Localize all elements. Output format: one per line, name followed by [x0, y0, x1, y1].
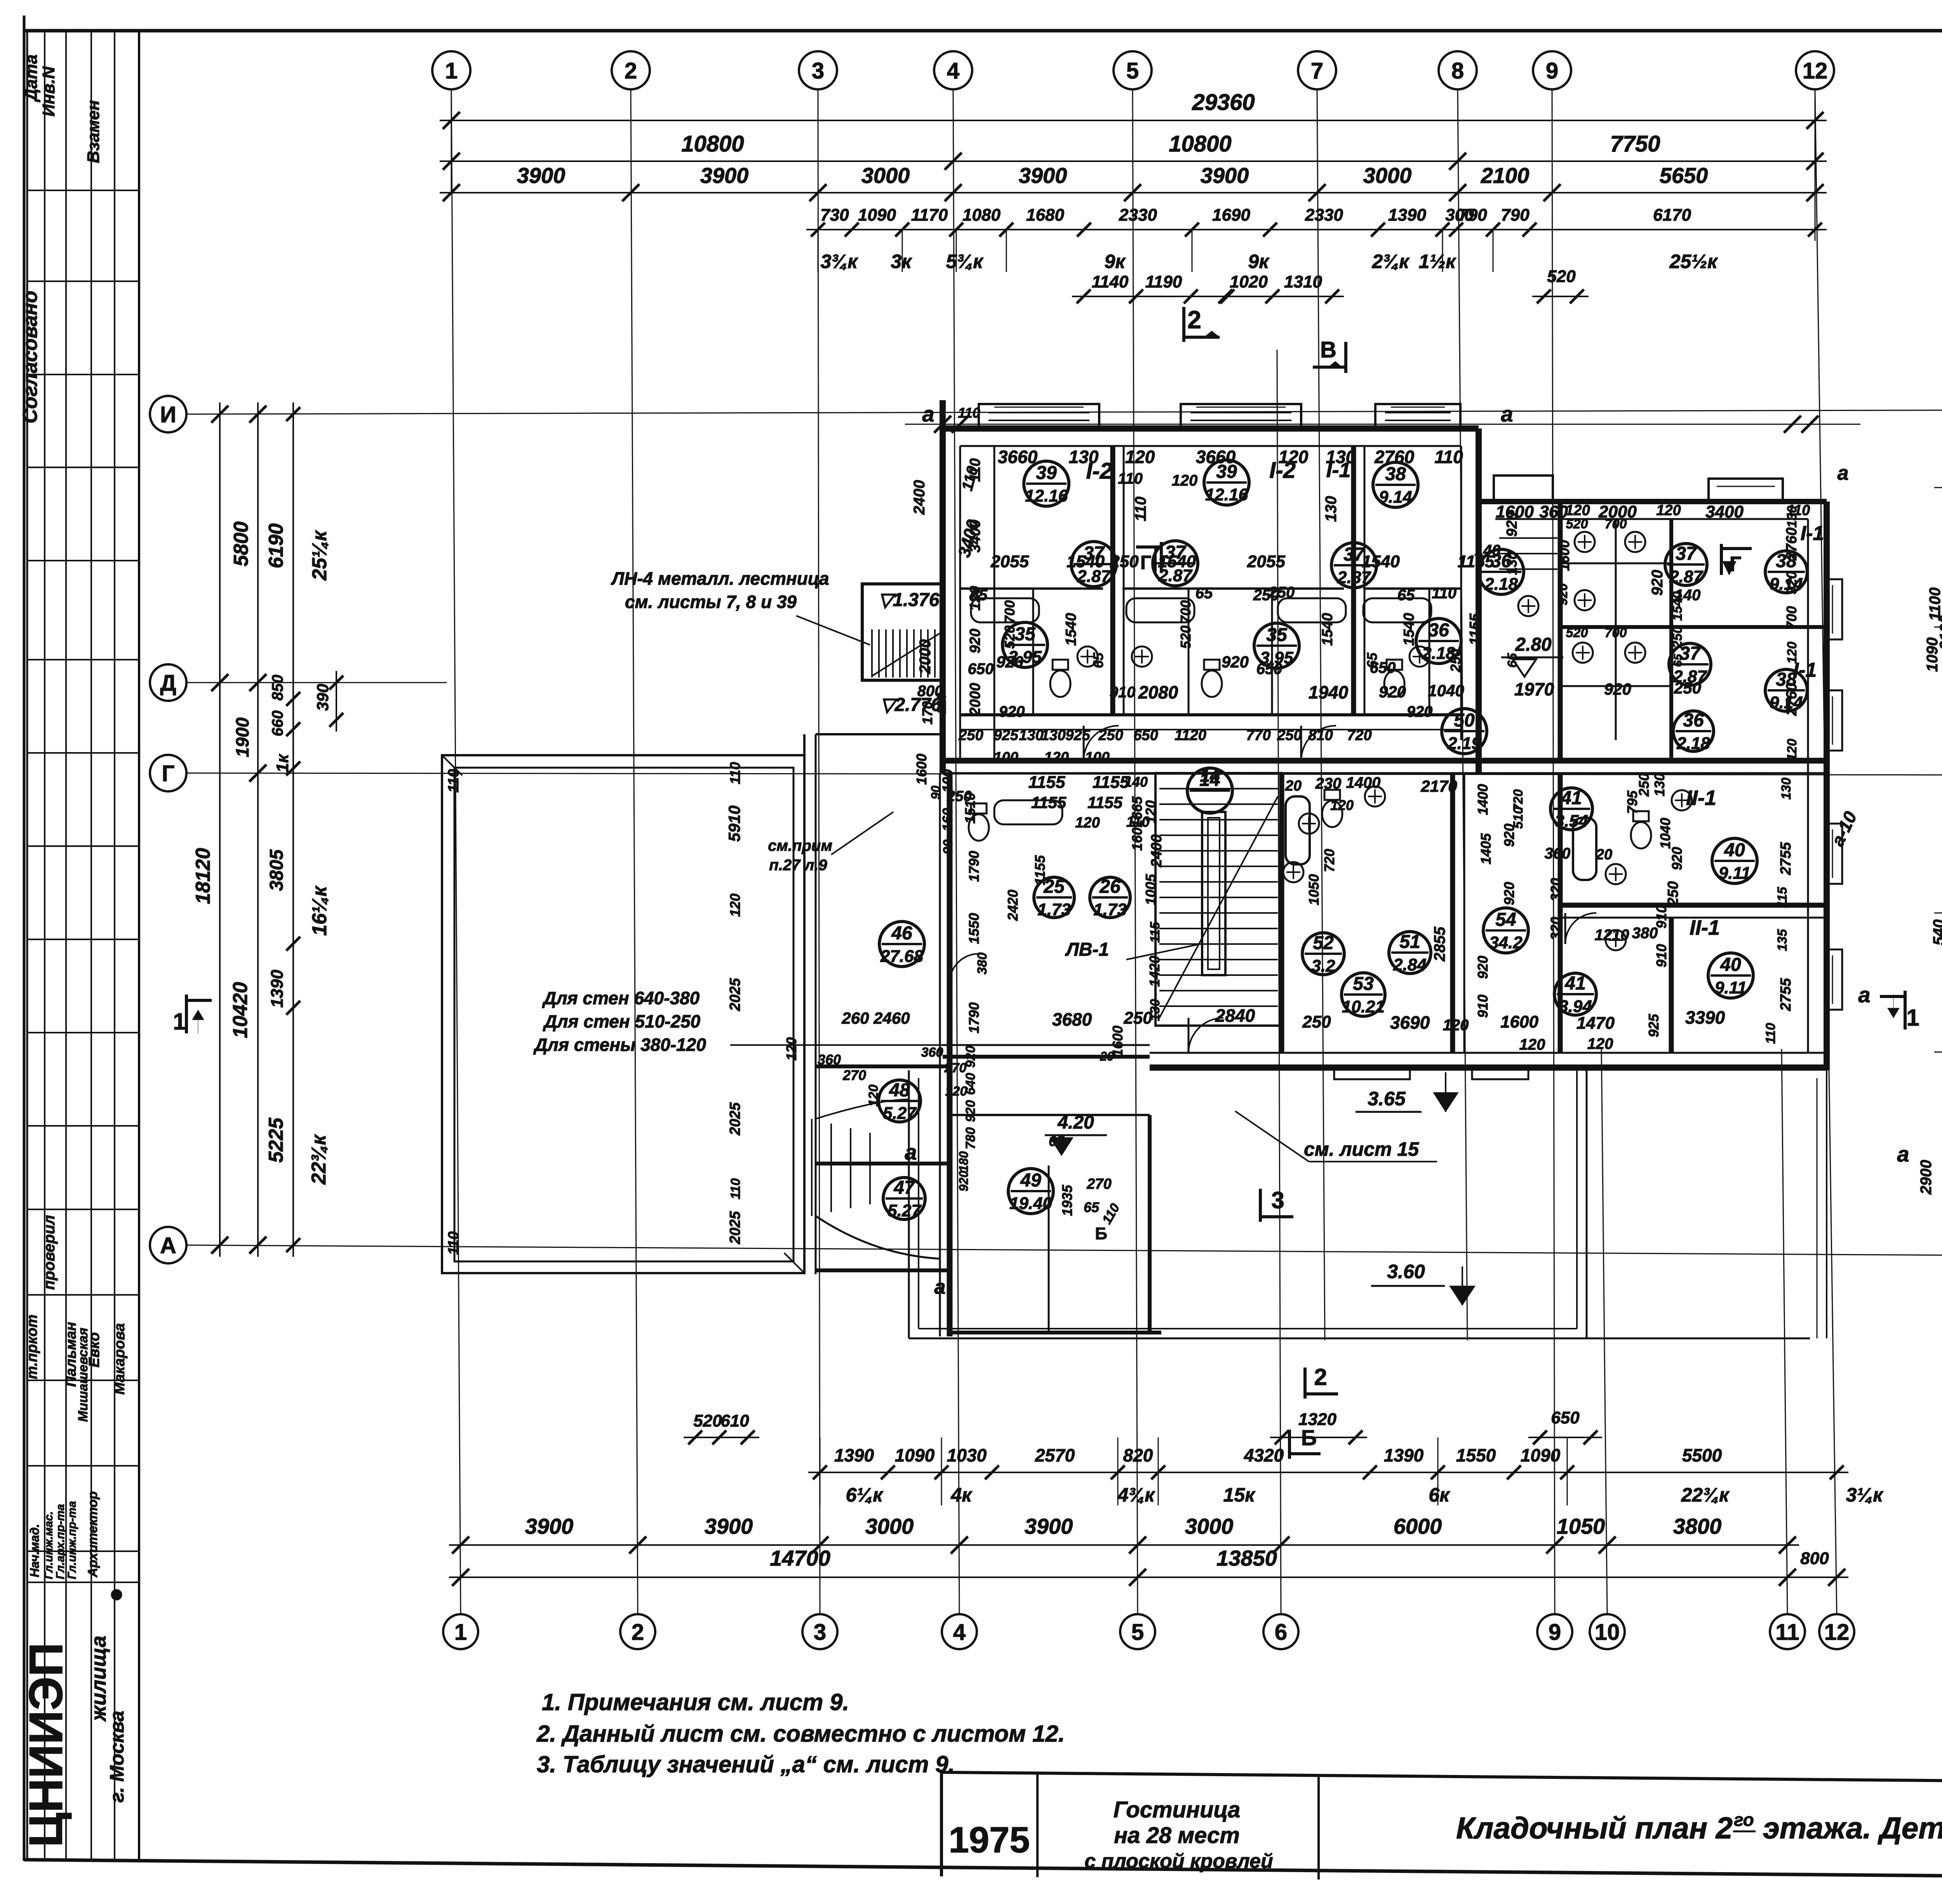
svg-text:910: 910 [1475, 995, 1491, 1018]
svg-text:2760: 2760 [1784, 683, 1800, 716]
svg-text:3680: 3680 [1052, 1009, 1092, 1030]
svg-text:53: 53 [1353, 974, 1374, 994]
svg-text:Согласовано: Согласовано [19, 291, 42, 423]
svg-text:4: 4 [947, 58, 959, 84]
svg-text:И: И [160, 402, 176, 427]
svg-text:1½к: 1½к [1419, 251, 1457, 272]
svg-text:1600: 1600 [1500, 1012, 1538, 1031]
svg-text:130: 130 [1148, 999, 1162, 1021]
svg-text:260 2460: 260 2460 [841, 1009, 910, 1027]
svg-text:a: a [922, 402, 934, 426]
svg-text:120: 120 [945, 1084, 968, 1099]
svg-text:780: 780 [963, 1127, 978, 1150]
svg-text:270: 270 [842, 1067, 866, 1083]
svg-text:18120: 18120 [192, 848, 214, 904]
svg-text:этажа. Детали кладки.: этажа. Детали кладки. [1763, 1811, 1942, 1845]
svg-text:9к: 9к [1104, 251, 1126, 272]
svg-text:120: 120 [1125, 447, 1155, 467]
svg-text:3.54: 3.54 [1555, 812, 1588, 831]
svg-text:Д: Д [160, 671, 176, 696]
svg-text:Для стены 380-120: Для стены 380-120 [533, 1035, 706, 1055]
svg-text:10.21: 10.21 [1342, 997, 1385, 1016]
svg-text:25¼к: 25¼к [308, 530, 331, 581]
svg-text:10420: 10420 [229, 982, 252, 1038]
svg-text:920: 920 [999, 703, 1025, 720]
svg-text:1390: 1390 [268, 970, 287, 1008]
svg-text:1400: 1400 [1346, 774, 1381, 791]
svg-text:1680: 1680 [1026, 206, 1064, 225]
svg-text:с плоской кровлей: с плоской кровлей [1084, 1850, 1273, 1873]
svg-text:120: 120 [1785, 642, 1799, 664]
svg-text:2.84: 2.84 [1393, 955, 1427, 974]
svg-text:35: 35 [1015, 624, 1036, 645]
svg-text:1405: 1405 [1478, 833, 1494, 864]
svg-text:39: 39 [1036, 463, 1057, 483]
svg-text:3400: 3400 [967, 520, 983, 553]
svg-text:2: 2 [1314, 1364, 1327, 1390]
svg-text:130: 130 [1651, 773, 1667, 796]
svg-text:160: 160 [1129, 827, 1145, 851]
svg-text:650: 650 [968, 660, 994, 678]
svg-text:230: 230 [1315, 775, 1342, 792]
svg-text:2.18: 2.18 [1484, 575, 1518, 594]
svg-text:520: 520 [1566, 625, 1588, 640]
svg-text:170: 170 [919, 701, 935, 725]
svg-text:1080: 1080 [962, 206, 1001, 225]
svg-text:120: 120 [1172, 472, 1198, 489]
svg-text:9: 9 [1549, 1620, 1561, 1645]
svg-text:2: 2 [625, 58, 637, 84]
svg-text:610: 610 [720, 1411, 749, 1430]
svg-text:a: a [934, 1276, 946, 1298]
svg-text:3900: 3900 [1019, 163, 1067, 188]
svg-text:20: 20 [1285, 778, 1302, 794]
svg-text:700: 700 [1178, 600, 1194, 624]
svg-text:120: 120 [1785, 739, 1799, 761]
svg-text:Нач.мад.: Нач.мад. [28, 1524, 42, 1577]
svg-text:А: А [160, 1233, 176, 1258]
svg-text:1390: 1390 [1388, 206, 1426, 225]
svg-text:135: 135 [1775, 929, 1790, 951]
svg-text:ЦНИИЭП: ЦНИИЭП [19, 1643, 72, 1847]
svg-text:1155: 1155 [1031, 793, 1067, 812]
svg-text:см. листы 7, 8 и 39: см. листы 7, 8 и 39 [625, 592, 797, 612]
svg-text:110: 110 [445, 1232, 462, 1255]
svg-text:920: 920 [1669, 847, 1685, 870]
svg-text:120: 120 [1565, 502, 1590, 519]
svg-text:1: 1 [445, 58, 458, 84]
svg-text:Инв.N: Инв.N [39, 66, 58, 117]
svg-text:120: 120 [1075, 815, 1100, 831]
svg-text:520: 520 [693, 1411, 722, 1430]
svg-text:100: 100 [994, 749, 1018, 766]
svg-text:1470: 1470 [1577, 1014, 1615, 1033]
svg-text:920: 920 [1604, 680, 1631, 698]
svg-text:920: 920 [957, 1171, 971, 1192]
svg-text:Архитектор: Архитектор [85, 1491, 100, 1578]
svg-text:360: 360 [921, 1045, 943, 1060]
svg-text:720: 720 [1347, 727, 1371, 744]
svg-text:2330: 2330 [1305, 206, 1343, 225]
svg-text:47: 47 [893, 1178, 915, 1198]
svg-text:1310: 1310 [1284, 272, 1322, 291]
svg-text:650: 650 [1551, 1408, 1580, 1427]
svg-text:2¾к: 2¾к [1372, 251, 1410, 272]
svg-text:1540: 1540 [1401, 613, 1417, 646]
svg-text:Гл.арх.пр-та: Гл.арх.пр-та [54, 1504, 67, 1579]
svg-text:51: 51 [1399, 932, 1420, 952]
svg-text:20: 20 [1100, 1049, 1114, 1063]
svg-text:I-1: I-1 [1801, 522, 1824, 545]
svg-text:2570: 2570 [1035, 1445, 1075, 1465]
svg-text:1790: 1790 [966, 1002, 982, 1033]
svg-text:1040: 1040 [1428, 681, 1464, 700]
svg-text:6: 6 [1275, 1620, 1287, 1645]
svg-text:1600: 1600 [1556, 540, 1572, 571]
svg-text:1940: 1940 [1309, 682, 1349, 702]
svg-text:1935: 1935 [1059, 1185, 1075, 1216]
svg-text:360: 360 [818, 1052, 841, 1068]
svg-text:3900: 3900 [705, 1514, 753, 1538]
svg-text:120: 120 [1656, 502, 1681, 519]
svg-text:6¼к: 6¼к [846, 1484, 884, 1506]
svg-text:920: 920 [1649, 570, 1666, 596]
svg-text:920: 920 [967, 629, 983, 653]
svg-text:2025: 2025 [727, 1211, 743, 1244]
svg-text:1790: 1790 [966, 851, 982, 882]
svg-text:920: 920 [1222, 653, 1249, 671]
svg-text:130: 130 [1326, 447, 1356, 467]
svg-text:2760: 2760 [1374, 447, 1415, 467]
svg-text:520: 520 [1547, 267, 1576, 286]
svg-text:5500: 5500 [1682, 1445, 1722, 1465]
svg-text:2000: 2000 [917, 639, 934, 674]
svg-text:320: 320 [1548, 917, 1564, 940]
svg-text:770: 770 [1246, 727, 1270, 744]
svg-text:Для стен 640-380: Для стен 640-380 [542, 988, 700, 1008]
svg-text:36: 36 [1683, 710, 1704, 731]
svg-text:9: 9 [1546, 58, 1558, 84]
svg-text:Взамен: Взамен [84, 100, 103, 163]
svg-text:790: 790 [1458, 206, 1487, 225]
svg-text:800: 800 [1800, 1549, 1829, 1568]
svg-text:14: 14 [1200, 765, 1220, 786]
svg-text:3.2: 3.2 [1311, 956, 1335, 976]
svg-text:1: 1 [1906, 1005, 1919, 1031]
svg-text:5¾к: 5¾к [946, 251, 984, 272]
svg-text:110: 110 [728, 1178, 743, 1199]
svg-text:a: a [1501, 402, 1513, 426]
svg-text:1040: 1040 [1657, 818, 1673, 849]
svg-text:6к: 6к [1429, 1484, 1450, 1506]
svg-text:6170: 6170 [1653, 206, 1691, 225]
svg-text:720: 720 [1321, 849, 1337, 872]
svg-text:270: 270 [944, 1061, 967, 1075]
svg-text:Б: Б [1301, 1425, 1317, 1450]
svg-text:1190: 1190 [1145, 272, 1182, 291]
svg-text:3.94: 3.94 [1559, 997, 1592, 1016]
svg-text:250: 250 [1253, 587, 1279, 604]
svg-text:4320: 4320 [1244, 1445, 1284, 1465]
svg-text:5225: 5225 [265, 1117, 287, 1163]
svg-text:65: 65 [1049, 1133, 1065, 1149]
svg-text:1155: 1155 [1028, 773, 1065, 792]
svg-text:34.2: 34.2 [1489, 933, 1523, 952]
svg-text:Евко: Евко [86, 1332, 103, 1367]
svg-text:13850: 13850 [1216, 1546, 1277, 1570]
svg-text:920: 920 [1784, 571, 1799, 594]
svg-text:650: 650 [1370, 659, 1396, 676]
svg-text:790: 790 [1501, 206, 1530, 225]
svg-text:1030: 1030 [947, 1445, 987, 1465]
svg-text:10800: 10800 [681, 131, 744, 157]
svg-text:3900: 3900 [1025, 1514, 1073, 1538]
svg-text:120: 120 [1443, 1017, 1469, 1034]
svg-text:на 28 мест: на 28 мест [1114, 1823, 1240, 1848]
svg-text:1155: 1155 [1467, 613, 1483, 645]
svg-text:65: 65 [1195, 585, 1213, 602]
svg-text:40: 40 [1724, 840, 1745, 861]
svg-text:3000: 3000 [1185, 1514, 1234, 1538]
svg-text:1540: 1540 [1067, 552, 1105, 571]
svg-text:3.60: 3.60 [1387, 1261, 1425, 1282]
svg-text:250: 250 [1674, 679, 1701, 697]
svg-text:120: 120 [1330, 797, 1354, 813]
svg-text:920: 920 [1475, 956, 1491, 979]
svg-text:п.27 л.9: п.27 л.9 [769, 857, 827, 874]
svg-text:2100: 2100 [1481, 163, 1530, 188]
svg-text:65: 65 [1397, 587, 1415, 604]
svg-text:360: 360 [1545, 845, 1571, 862]
svg-text:2080: 2080 [1138, 682, 1178, 702]
svg-text:2025: 2025 [727, 978, 743, 1011]
svg-text:920: 920 [963, 1100, 978, 1122]
svg-text:1. Примечания см. лист 9.: 1. Примечания см. лист 9. [542, 1689, 849, 1715]
svg-text:2900: 2900 [1918, 1160, 1935, 1195]
svg-text:50: 50 [1454, 710, 1475, 731]
svg-text:110: 110 [1432, 585, 1456, 602]
svg-text:1к: 1к [273, 753, 292, 772]
svg-text:9.11: 9.11 [1715, 978, 1747, 997]
svg-text:250: 250 [1277, 727, 1302, 744]
svg-text:ЛН-4 металл. лестница: ЛН-4 металл. лестница [611, 568, 829, 589]
svg-text:1090: 1090 [858, 206, 896, 225]
svg-text:1600: 1600 [914, 754, 929, 785]
svg-text:Макарова: Макарова [111, 1323, 128, 1395]
svg-text:5: 5 [1131, 1620, 1144, 1645]
svg-text:2420: 2420 [1005, 890, 1021, 921]
svg-text:650: 650 [1133, 727, 1158, 744]
svg-text:5: 5 [1126, 58, 1139, 84]
svg-text:120: 120 [967, 586, 983, 610]
svg-text:2000: 2000 [967, 683, 983, 716]
svg-text:2055: 2055 [990, 552, 1029, 571]
svg-text:2855: 2855 [1431, 927, 1448, 962]
svg-text:1540: 1540 [1670, 591, 1685, 621]
svg-text:65: 65 [1505, 653, 1520, 668]
svg-text:1210: 1210 [1595, 927, 1629, 944]
svg-text:48: 48 [889, 1080, 910, 1101]
svg-text:110: 110 [727, 762, 743, 784]
svg-text:5910: 5910 [725, 805, 743, 841]
svg-text:В: В [1320, 337, 1336, 362]
svg-text:26: 26 [1099, 876, 1121, 897]
svg-text:130: 130 [1041, 727, 1065, 744]
svg-text:15к: 15к [1223, 1484, 1256, 1506]
svg-text:5.27: 5.27 [883, 1104, 917, 1123]
svg-text:12: 12 [1824, 1620, 1850, 1645]
svg-text:140: 140 [1475, 542, 1501, 559]
svg-text:130: 130 [1504, 552, 1520, 575]
svg-text:250: 250 [1302, 1012, 1331, 1031]
svg-text:1540: 1540 [1319, 613, 1336, 646]
svg-text:го: го [1734, 1810, 1754, 1830]
svg-text:3690: 3690 [1390, 1012, 1430, 1033]
svg-text:660: 660 [269, 711, 286, 737]
svg-text:1090: 1090 [1924, 638, 1941, 672]
svg-text:250: 250 [1448, 649, 1463, 672]
svg-text:250: 250 [1110, 552, 1139, 571]
svg-text:2755: 2755 [1778, 842, 1794, 875]
svg-text:9.11: 9.11 [1719, 864, 1751, 883]
svg-text:Г: Г [162, 761, 175, 786]
svg-text:9к: 9к [1248, 251, 1270, 272]
svg-text:1090: 1090 [895, 1445, 935, 1465]
svg-text:920: 920 [996, 653, 1023, 671]
svg-text:1390: 1390 [834, 1445, 874, 1465]
svg-text:925: 925 [1065, 727, 1090, 744]
svg-text:1690: 1690 [1212, 206, 1250, 225]
svg-text:5800: 5800 [230, 521, 252, 566]
svg-text:a: a [1838, 462, 1849, 484]
svg-text:3000: 3000 [1363, 163, 1412, 188]
svg-text:250: 250 [1670, 626, 1685, 649]
svg-text:810: 810 [1308, 727, 1333, 744]
svg-text:3660: 3660 [998, 447, 1038, 467]
svg-text:3: 3 [1271, 1187, 1284, 1213]
svg-text:3900: 3900 [525, 1514, 574, 1538]
svg-text:см. лист 15: см. лист 15 [1304, 1138, 1419, 1160]
svg-text:250: 250 [1636, 773, 1652, 797]
svg-text:8: 8 [1451, 58, 1464, 84]
svg-text:250: 250 [1098, 727, 1123, 744]
svg-text:1020: 1020 [1230, 272, 1268, 291]
svg-text:1050: 1050 [1306, 874, 1322, 905]
svg-text:II-1: II-1 [1690, 916, 1720, 939]
svg-text:52: 52 [1313, 933, 1334, 953]
svg-text:10: 10 [1595, 1620, 1620, 1645]
svg-text:130: 130 [1069, 447, 1099, 467]
svg-text:3900: 3900 [517, 163, 566, 188]
svg-text:1: 1 [173, 1009, 186, 1035]
svg-text:5.27: 5.27 [887, 1201, 922, 1220]
svg-text:25½к: 25½к [1669, 251, 1718, 272]
svg-text:проверил: проверил [41, 1215, 58, 1290]
svg-text:20: 20 [1596, 847, 1612, 863]
svg-text:1540: 1540 [1158, 552, 1196, 571]
svg-text:9.14: 9.14 [1379, 488, 1412, 507]
svg-text:850: 850 [269, 675, 286, 701]
svg-text:14700: 14700 [770, 1546, 830, 1570]
svg-text:650: 650 [1256, 660, 1282, 678]
svg-text:1155: 1155 [1093, 773, 1129, 792]
svg-text:5650: 5650 [1660, 163, 1708, 188]
svg-text:3805: 3805 [266, 849, 287, 891]
svg-text:540: 540 [1930, 920, 1942, 946]
svg-text:920: 920 [1504, 512, 1520, 537]
svg-text:120: 120 [1587, 1035, 1613, 1052]
svg-text:120: 120 [1279, 447, 1309, 467]
svg-text:3: 3 [812, 58, 824, 84]
svg-text:1550: 1550 [1456, 1445, 1496, 1465]
svg-text:100: 100 [1085, 749, 1109, 766]
svg-text:12.16: 12.16 [1205, 485, 1248, 504]
svg-text:2400: 2400 [911, 480, 928, 515]
svg-text:2755: 2755 [1778, 978, 1794, 1011]
svg-text:41: 41 [1561, 788, 1582, 808]
svg-text:3. Таблицу значений „а“ см. ли: 3. Таблицу значений „а“ см. лист 9. [537, 1751, 955, 1777]
svg-text:1975: 1975 [948, 1819, 1030, 1860]
svg-text:Г: Г [1730, 552, 1742, 576]
svg-text:22¾к: 22¾к [1681, 1484, 1730, 1506]
svg-text:920: 920 [1379, 683, 1406, 701]
svg-text:520: 520 [1002, 625, 1018, 649]
svg-text:29360: 29360 [1192, 90, 1255, 115]
svg-text:46: 46 [891, 923, 912, 944]
svg-text:3000: 3000 [865, 1514, 914, 1538]
svg-text:см.прим: см.прим [768, 837, 832, 854]
svg-text:35: 35 [1266, 625, 1288, 645]
svg-text:2.18: 2.18 [1676, 734, 1710, 753]
svg-text:19.40: 19.40 [1009, 1194, 1053, 1213]
svg-text:1400: 1400 [1475, 784, 1491, 815]
svg-text:920: 920 [1407, 703, 1433, 720]
svg-text:910: 910 [1653, 944, 1669, 967]
svg-text:37: 37 [1676, 544, 1697, 564]
svg-text:110: 110 [1118, 470, 1143, 487]
svg-text:180: 180 [957, 1151, 971, 1172]
svg-text:925: 925 [994, 727, 1018, 744]
svg-text:390: 390 [313, 684, 332, 711]
svg-text:3400: 3400 [1705, 502, 1744, 521]
svg-text:10800: 10800 [1169, 131, 1231, 157]
svg-text:160: 160 [940, 808, 955, 831]
svg-text:a: a [905, 1140, 917, 1164]
svg-text:1170: 1170 [911, 206, 948, 225]
svg-text:a: a [1897, 1142, 1909, 1166]
svg-text:Б: Б [1095, 1224, 1107, 1243]
svg-text:г. Москва: г. Москва [106, 1711, 128, 1803]
svg-text:920: 920 [1556, 584, 1570, 606]
svg-text:1: 1 [454, 1620, 467, 1645]
svg-text:700: 700 [1605, 517, 1627, 531]
svg-text:11: 11 [1775, 1620, 1799, 1645]
svg-text:380: 380 [975, 953, 990, 975]
svg-text:520: 520 [1566, 517, 1588, 531]
svg-text:120: 120 [783, 1037, 799, 1061]
svg-text:3: 3 [814, 1620, 826, 1645]
svg-text:250: 250 [1665, 881, 1681, 906]
svg-text:820: 820 [1123, 1445, 1153, 1465]
svg-text:110: 110 [967, 458, 983, 482]
svg-text:110: 110 [1434, 447, 1463, 467]
svg-text:2025: 2025 [727, 1102, 743, 1136]
svg-text:▽1.376: ▽1.376 [878, 590, 939, 610]
svg-text:II-1: II-1 [1686, 786, 1716, 810]
svg-text:1.73: 1.73 [1093, 900, 1127, 919]
svg-text:210: 210 [934, 693, 948, 714]
svg-text:1140: 1140 [1092, 272, 1129, 291]
